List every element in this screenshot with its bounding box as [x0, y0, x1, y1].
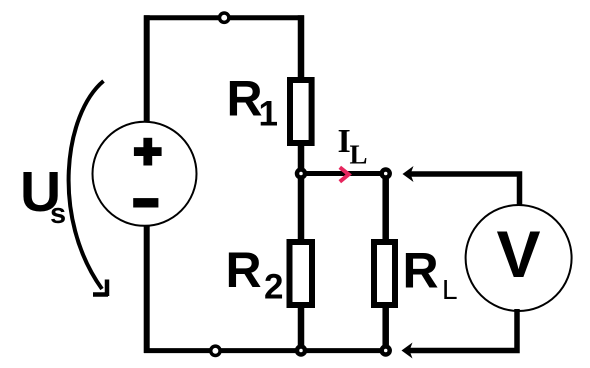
wire: R1 bottom to junction row: [298, 143, 305, 176]
node: top wire open terminal: [220, 13, 229, 22]
voltmeter circle: [466, 205, 572, 311]
svg-text:L: L: [350, 139, 368, 169]
node: junction R2 bottom: [297, 347, 305, 355]
voltmeter bottom probe arrowhead: [402, 343, 413, 359]
voltmeter bottom probe wire: [407, 309, 517, 351]
node: junction RL bottom: [382, 347, 390, 355]
node: junction RL top: [382, 170, 390, 178]
wire: junction row horizontal (I_L wire): [301, 171, 386, 176]
svg-text:L: L: [442, 274, 458, 305]
label RL: [403, 243, 458, 306]
wire: middle vertical top (top wire to R1): [298, 15, 305, 80]
wire: junction to R2 top: [298, 174, 305, 243]
node: junction R1/R2/IL: [297, 170, 305, 178]
svg-text:2: 2: [264, 268, 283, 307]
label Us: [20, 160, 66, 230]
svg-text:s: s: [50, 198, 66, 230]
svg-text:R: R: [227, 71, 263, 127]
wire: bottom horizontal: [144, 348, 386, 353]
wire: RL bottom to bottom wire: [382, 305, 389, 350]
resistor R1 body: [290, 80, 312, 143]
voltmeter top probe arrowhead: [403, 166, 414, 182]
svg-text:R: R: [403, 243, 439, 299]
resistor RL body: [374, 242, 395, 305]
wire: top horizontal: [144, 15, 304, 20]
wire: R2 bottom to bottom wire: [298, 305, 305, 350]
svg-text:1: 1: [259, 95, 278, 134]
svg-text:V: V: [497, 217, 541, 291]
voltage source U_s circle: [93, 122, 197, 226]
label R1: [227, 71, 278, 134]
label IL (serif): [338, 123, 368, 169]
wire: left vertical (top wire to source top): [144, 15, 150, 123]
Us arc arrowhead (barbs at tip): [93, 292, 108, 297]
red current arrow on IL wire: [340, 167, 349, 181]
wire: left vertical (source bottom to bottom wire): [144, 226, 150, 353]
Us reference arc: [69, 81, 104, 289]
plus sign inside source: [134, 138, 162, 166]
svg-text:R: R: [226, 242, 262, 298]
minus sign inside source: [133, 198, 158, 207]
wire: RL vertical top (junction row to RL): [382, 171, 389, 242]
resistor R2 body: [290, 242, 313, 305]
voltmeter top probe wire: [408, 174, 520, 206]
label R2: [226, 242, 284, 307]
node: bottom wire open terminal: [211, 346, 220, 355]
